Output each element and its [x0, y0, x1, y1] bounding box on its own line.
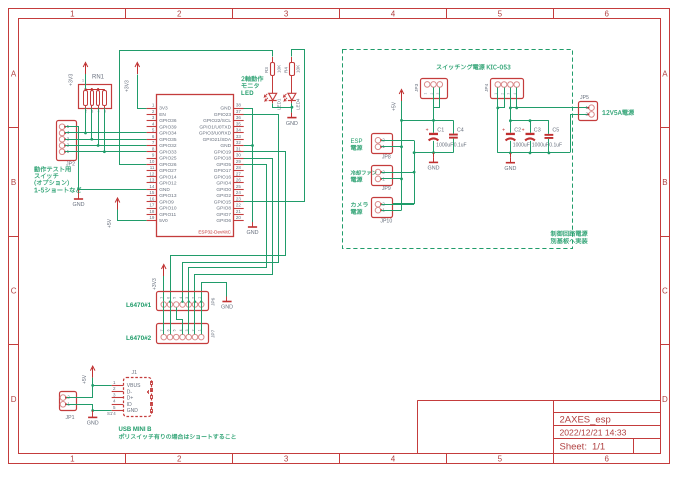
svg-text:A: A	[11, 69, 17, 78]
JP7 pin 2 circle	[192, 334, 198, 340]
wire RN1 element 2 to switch line	[91, 108, 93, 139]
J1 pin 1 (VBUS)	[112, 385, 124, 387]
svg-text:+5V: +5V	[82, 374, 88, 384]
svg-text:5: 5	[173, 297, 177, 299]
wire JP3 pin2 down to +5V rail	[433, 87, 435, 120]
U1 pin 7 (GPIO32)	[147, 145, 157, 147]
U1 pin 16 (GPIO9)	[147, 201, 157, 203]
junction	[413, 151, 416, 154]
svg-text:JP7: JP7	[211, 329, 217, 338]
svg-text:GND: GND	[73, 202, 85, 208]
junction	[432, 151, 435, 154]
U1 pin 15 (GPIO13)	[147, 195, 157, 197]
GND rail of JP3 cluster	[414, 152, 453, 154]
svg-text:10K: 10K	[276, 64, 281, 73]
svg-text:L6470#1: L6470#1	[126, 302, 152, 309]
wire JP9 pin2	[381, 172, 414, 174]
junction	[91, 409, 94, 412]
J1 pin 3 (D+)	[112, 397, 124, 399]
svg-text:ID: ID	[127, 402, 132, 408]
svg-text:5: 5	[498, 10, 503, 19]
connector JP8 body	[372, 134, 393, 154]
svg-text:+: +	[502, 128, 505, 134]
wire RN1 element 1 to switch line	[85, 108, 87, 133]
U1 pin 28 (GPIO17)	[234, 170, 244, 172]
RN1 resistor element 4	[103, 91, 107, 106]
wire U1 pin23 GPIO15 to R4 top	[244, 50, 305, 202]
ground symbol JP3 cluster	[433, 153, 435, 158]
svg-text:32: 32	[236, 140, 242, 145]
power +5V at USB	[92, 368, 94, 378]
svg-text:1000uF: 1000uF	[513, 142, 530, 148]
svg-text:10: 10	[149, 159, 155, 164]
svg-text:10K: 10K	[296, 64, 301, 73]
JP1 pin 1 circle	[60, 402, 66, 408]
svg-text:2: 2	[192, 297, 196, 299]
svg-text:GND: GND	[220, 143, 231, 149]
svg-text:S1'4: S1'4	[107, 411, 116, 416]
U1 pin 17 (GPIO10)	[147, 208, 157, 210]
U1 pin 33 (GPIO21/SDA)	[234, 139, 244, 141]
U1 pin 27 (GPIO16)	[234, 176, 244, 178]
svg-text:LED: LED	[241, 91, 254, 97]
svg-text:36: 36	[236, 115, 242, 120]
connector J1 USB body	[124, 378, 152, 417]
frame column ticks	[125, 8, 127, 19]
JP1 pin 2 circle	[60, 395, 66, 401]
svg-text:JP9: JP9	[382, 186, 391, 192]
svg-text:34: 34	[236, 128, 242, 133]
svg-text:GPIO12: GPIO12	[159, 181, 177, 187]
svg-text:GND: GND	[221, 305, 233, 311]
svg-text:GPIO9: GPIO9	[159, 199, 174, 205]
svg-text:22: 22	[236, 203, 242, 208]
svg-text:L6470#2: L6470#2	[126, 335, 152, 342]
svg-text:JP5: JP5	[580, 95, 589, 101]
svg-text:28: 28	[236, 165, 242, 170]
connector JP10 body	[372, 198, 393, 218]
svg-text:+5V: +5V	[107, 218, 113, 228]
U1 pin 26 (GPIO4)	[234, 182, 244, 184]
label switching power supply	[437, 64, 511, 70]
connector JP4 body	[491, 79, 524, 99]
JP9 pin 2 circle	[375, 169, 381, 175]
wire JP4 pin1 down to GND rail	[497, 88, 499, 153]
svg-text:6: 6	[167, 329, 171, 331]
svg-text:GPIO16: GPIO16	[214, 174, 232, 180]
U1 pin 35 (GPIO1/U0TXD)	[234, 126, 244, 128]
wire JP1 pin2 to +5V	[67, 386, 93, 398]
J1 pin 5 (GND)	[112, 410, 124, 412]
svg-text:5: 5	[173, 329, 177, 331]
wire JP8 pin1	[381, 146, 401, 148]
wire LED1 cathode to GND junction	[273, 104, 292, 108]
svg-text:7: 7	[160, 297, 164, 299]
svg-text:16: 16	[149, 196, 155, 201]
JP3 pin 2 circle	[431, 82, 437, 88]
svg-text:+3V3: +3V3	[69, 74, 75, 86]
junction	[400, 119, 403, 122]
U1 pin 32 (GND)	[234, 145, 244, 147]
U1 pin 23 (GPIO15)	[234, 201, 244, 203]
svg-text:GPIO32: GPIO32	[159, 143, 177, 149]
svg-text:+5V: +5V	[391, 101, 397, 111]
wire U1 pin38 GND down	[244, 109, 253, 223]
svg-text:USB MINI B: USB MINI B	[119, 427, 153, 433]
junction	[97, 144, 100, 147]
svg-text:GPIO22/SCL: GPIO22/SCL	[203, 118, 231, 124]
svg-text:1: 1	[70, 455, 75, 464]
svg-text:GPIO26: GPIO26	[159, 162, 177, 168]
svg-text:25: 25	[236, 184, 242, 189]
svg-text:C2: C2	[514, 128, 521, 134]
JP6 pin 4 circle	[180, 302, 186, 308]
svg-text:GPIO35: GPIO35	[159, 137, 177, 143]
junction	[509, 119, 512, 122]
svg-text:GPIO25: GPIO25	[159, 156, 177, 162]
junction	[291, 106, 294, 109]
U1 pin 13 (GPIO12)	[147, 182, 157, 184]
svg-text:6: 6	[604, 10, 609, 19]
svg-text:GND: GND	[220, 106, 231, 112]
U1 pin 5 (GPIO34)	[147, 132, 157, 134]
svg-text:D+: D+	[127, 396, 134, 402]
dashed box: switching power supply block	[343, 50, 573, 249]
junction	[529, 152, 532, 155]
svg-text:EN: EN	[159, 112, 166, 118]
RN1 resistor element 1	[84, 91, 88, 106]
junction	[251, 144, 254, 147]
U1 pin 29 (GPIO5)	[234, 164, 244, 166]
U1 pin 25 (GPIO0)	[234, 189, 244, 191]
note: test switch	[34, 166, 70, 172]
ground symbol below LEDs	[291, 113, 293, 118]
JP2 pin 3 circle	[59, 136, 65, 142]
svg-text:24: 24	[236, 190, 242, 195]
wire RN1 element 4 to switch line	[104, 108, 106, 152]
wire col1 through JP6 to JP7	[163, 302, 165, 335]
svg-text:C1: C1	[437, 128, 444, 134]
LED LED4	[291, 82, 293, 93]
JP7 pin 6 circle	[167, 334, 173, 340]
wire +3V3 JP6/JP7 col1	[163, 276, 165, 334]
svg-text:Sheet:: Sheet:	[560, 442, 587, 453]
U1 pin 37 (GPIO23)	[234, 114, 244, 116]
svg-text:GPIO36: GPIO36	[159, 118, 177, 124]
JP6 pin 2 circle	[192, 302, 198, 308]
power +3V3 at U1 pin1	[137, 64, 139, 74]
svg-text:17: 17	[149, 203, 155, 208]
wire JP2 pin5 to GND net	[66, 127, 79, 190]
connector JP1 body	[60, 392, 77, 411]
junction	[90, 138, 93, 141]
junction	[400, 145, 403, 148]
U1 pin 38 (GND)	[234, 108, 244, 110]
svg-text:1000uF: 1000uF	[532, 142, 549, 148]
capacitor C5 0.1uF	[548, 121, 550, 134]
svg-text:GPIO3/U0RXD: GPIO3/U0RXD	[199, 131, 232, 137]
wire C1 bottom to GND rail	[433, 141, 435, 153]
U1 pin 22 (GPIO8)	[234, 208, 244, 210]
junction	[509, 152, 512, 155]
svg-text:LED1: LED1	[276, 98, 281, 110]
U1 pin 8 (GPIO33)	[147, 151, 157, 153]
wire +12V to JP5 pin1	[510, 107, 588, 109]
svg-text:GND: GND	[87, 421, 99, 427]
svg-text:GPIO13: GPIO13	[159, 193, 177, 199]
capacitor C1 1000uF	[433, 120, 435, 132]
JP4 pin 2 circle	[501, 82, 507, 88]
connector JP5 body	[579, 102, 598, 121]
junction	[529, 119, 532, 122]
connector JP6 body	[157, 292, 209, 311]
label カメラ	[351, 202, 368, 207]
JP2 pin 4 circle	[59, 130, 65, 136]
svg-text:1: 1	[82, 79, 84, 83]
U1 pin 36 (GPIO22/SCL)	[234, 120, 244, 122]
JP10 pin 2 circle	[375, 202, 381, 208]
junction dots on JP6 pins	[169, 301, 171, 303]
svg-text:GPIO11: GPIO11	[159, 212, 176, 218]
GND rail of JP4 cluster	[498, 152, 570, 154]
wire U1 pin32 GND stub	[244, 145, 253, 147]
connector JP7 body	[157, 324, 209, 344]
svg-text:GPIO17: GPIO17	[214, 168, 232, 174]
svg-text:D: D	[662, 395, 668, 404]
svg-text:JP4: JP4	[484, 83, 490, 92]
svg-text:GPIO10: GPIO10	[159, 206, 177, 212]
svg-text:21: 21	[236, 209, 242, 214]
svg-text:4: 4	[391, 455, 396, 464]
wire JP10 pin1	[381, 210, 401, 212]
svg-text:C4: C4	[457, 128, 464, 134]
svg-text:C: C	[662, 287, 668, 296]
svg-text:11: 11	[150, 165, 155, 170]
resistor network RN1 body	[79, 85, 112, 109]
capacitor C4 0.1uF	[453, 120, 455, 133]
JP7 pin 1 circle	[199, 334, 205, 340]
U1 pin 24 (GPIO2)	[234, 195, 244, 197]
U1 pin 10 (GPIO26)	[147, 164, 157, 166]
svg-text:VBUS: VBUS	[127, 383, 141, 389]
svg-text:3: 3	[185, 297, 189, 299]
resistor R3 10K	[272, 57, 274, 62]
junction	[515, 107, 518, 110]
JP3 pin 1 circle	[424, 82, 430, 88]
JP4 pin 1 circle	[495, 82, 501, 88]
U1 pin 4 (GPIO39)	[147, 126, 157, 128]
wire +5V arrow to rail	[401, 101, 403, 120]
wire JP4 pin3 down to C2	[510, 88, 512, 133]
wire JP3 pin3 jog	[434, 88, 440, 108]
svg-text:GPIO2: GPIO2	[216, 193, 231, 199]
svg-text:A: A	[662, 69, 668, 78]
U1 pin 21 (GPIO7)	[234, 214, 244, 216]
svg-text:3V3: 3V3	[159, 106, 168, 112]
svg-text:JP3: JP3	[414, 83, 420, 92]
svg-text:3: 3	[284, 455, 289, 464]
wire JP8 pin2	[381, 140, 414, 142]
capacitor C2 1000uF	[506, 133, 515, 135]
power +3V3 at RN1	[85, 64, 87, 74]
wire JP2 pin1 to U1 pin8 GPIO33	[65, 151, 147, 153]
svg-text:6: 6	[167, 297, 171, 299]
U1 pin 11 (GPIO27)	[147, 170, 157, 172]
svg-text:GND: GND	[286, 121, 298, 127]
wire JP6 pin1 to GND	[202, 283, 227, 302]
JP2 pin 2 circle	[59, 143, 65, 149]
svg-text:1: 1	[424, 93, 428, 95]
svg-text:+3V3: +3V3	[152, 278, 158, 290]
svg-text:D-: D-	[127, 389, 133, 395]
svg-text:RN1: RN1	[92, 75, 105, 81]
junction	[413, 171, 416, 174]
svg-text:2022/12/21 14:33: 2022/12/21 14:33	[560, 427, 627, 437]
U1 pin 6 (GPIO35)	[147, 139, 157, 141]
svg-text:R4: R4	[283, 67, 288, 73]
U1 pin 34 (GPIO3/U0RXD)	[234, 132, 244, 134]
svg-text:GPIO27: GPIO27	[159, 168, 177, 174]
svg-text:JP6: JP6	[211, 297, 217, 306]
U1 pin 1 (3V3)	[147, 108, 157, 110]
JP10 pin 1 circle	[375, 207, 381, 213]
frame row ticks	[8, 127, 19, 129]
svg-text:15: 15	[149, 190, 155, 195]
svg-text:2: 2	[500, 93, 504, 95]
svg-text:GND: GND	[247, 230, 259, 236]
svg-text:D: D	[11, 395, 17, 404]
svg-text:GPIO39: GPIO39	[159, 124, 177, 130]
svg-text:GND: GND	[159, 187, 170, 193]
svg-text:GND: GND	[428, 166, 440, 172]
svg-text:37: 37	[236, 109, 242, 114]
JP6 pin 5 circle	[174, 302, 180, 308]
svg-text:B: B	[662, 178, 667, 187]
svg-text:+: +	[426, 128, 429, 134]
wire C3 bottom	[530, 141, 532, 153]
ground symbol at JP2	[78, 189, 80, 194]
wire U1 pin29 GPIO5 to JP6/JP7 col5	[189, 165, 267, 335]
wire GND vertical B JP8.2 to JP10.2	[393, 141, 415, 204]
JP6 pin 7 circle	[161, 302, 167, 308]
U1 pin 18 (GPIO11)	[147, 214, 157, 216]
JP6 pin 3 circle	[186, 302, 192, 308]
JP9 pin 1 circle	[375, 176, 381, 182]
svg-text:33: 33	[236, 134, 242, 139]
wire +5V to VBUS	[92, 378, 94, 386]
svg-text:C5: C5	[552, 128, 559, 134]
U1 pin 14 (GND)	[147, 189, 157, 191]
U1 pin 9 (GPIO25)	[147, 158, 157, 160]
wire junction down to ground	[291, 107, 293, 112]
svg-text:38: 38	[236, 103, 242, 108]
svg-text:5V0: 5V0	[159, 218, 168, 224]
svg-text:0.1uF: 0.1uF	[454, 142, 467, 148]
wire col2 through JP6 to JP7	[170, 302, 172, 335]
svg-text:5: 5	[498, 455, 503, 464]
svg-text:2AXES_esp: 2AXES_esp	[560, 414, 611, 425]
svg-text:1: 1	[198, 297, 202, 299]
U1 pin 19 (5V0)	[147, 220, 157, 222]
svg-text:GPIO19: GPIO19	[214, 149, 232, 155]
svg-text:4: 4	[391, 10, 396, 19]
svg-text:GPIO7: GPIO7	[216, 212, 231, 218]
svg-text:GND: GND	[127, 408, 139, 414]
svg-text:C: C	[11, 287, 17, 296]
svg-text:31: 31	[236, 146, 242, 151]
wire U1 pin37 GPIO23 to JP6 pin4	[183, 115, 279, 302]
svg-text:1/1: 1/1	[592, 442, 605, 453]
svg-text:R3: R3	[264, 67, 269, 73]
wire RN1 element 3 to switch line	[98, 108, 100, 146]
JP3 pin 3 circle	[437, 82, 443, 88]
svg-text:0.1uF: 0.1uF	[549, 142, 562, 148]
svg-text:2: 2	[177, 10, 182, 19]
svg-text:GPIO33: GPIO33	[159, 149, 177, 155]
svg-text:6: 6	[604, 455, 609, 464]
junction	[400, 178, 403, 181]
svg-text:JP8: JP8	[382, 154, 391, 160]
svg-text:GPIO4: GPIO4	[216, 181, 231, 187]
svg-text:12: 12	[149, 171, 155, 176]
svg-text:J1: J1	[132, 370, 138, 376]
junction	[84, 132, 87, 135]
label monitor LED	[242, 76, 264, 82]
svg-text:13: 13	[149, 178, 155, 183]
svg-text:26: 26	[236, 178, 242, 183]
wire JP4 pin4 down	[516, 88, 518, 108]
svg-text:4: 4	[179, 297, 183, 299]
svg-text:29: 29	[236, 159, 242, 164]
svg-text:30: 30	[236, 153, 242, 158]
svg-text:3: 3	[67, 136, 70, 141]
svg-text:GPIO18: GPIO18	[214, 156, 232, 162]
JP5 pin 1 circle	[589, 105, 595, 111]
wire U1 pin31 GPIO19 to JP6/JP7 col2	[171, 152, 286, 335]
JP6 pin 6 circle	[167, 302, 173, 308]
svg-text:GPIO0: GPIO0	[216, 187, 231, 193]
ESP32-DevKitC module body	[157, 95, 234, 237]
wire LED4 cathode	[291, 103, 293, 107]
JP7 pin 3 circle	[186, 334, 192, 340]
U1 pin 2 (EN)	[147, 114, 157, 116]
wire col5 through JP6 to JP7	[188, 302, 190, 335]
U1 pin 12 (GPIO14)	[147, 176, 157, 178]
label 冷却ファン	[351, 170, 377, 175]
svg-text:20: 20	[236, 215, 242, 220]
wire JP2 pin4 to U1 pin5 GPIO34	[65, 132, 147, 134]
ground symbol below U1	[252, 222, 254, 227]
wire col7 through JP6	[201, 302, 203, 335]
U1 pin 3 (GPIO36)	[147, 120, 157, 122]
wire U1 pin30 GPIO18 to JP6/JP7 col6	[195, 159, 273, 335]
svg-text:GPIO14: GPIO14	[159, 174, 177, 180]
svg-text:JP10: JP10	[380, 218, 392, 224]
svg-text:GPIO15: GPIO15	[214, 199, 232, 205]
ground symbol at JP6	[226, 297, 228, 302]
wire col6 through JP6 to JP7	[194, 302, 196, 335]
label control circuit power	[551, 231, 588, 237]
svg-text:GND: GND	[504, 166, 516, 172]
power +3V3 at JP6	[163, 266, 165, 276]
junction	[103, 150, 106, 153]
svg-text:GPIO34: GPIO34	[159, 131, 177, 137]
JP7 pin 5 circle	[174, 334, 180, 340]
RN1 resistor element 3	[97, 91, 100, 106]
junction	[432, 119, 435, 122]
junction	[509, 107, 512, 110]
ground symbol at USB	[92, 411, 94, 413]
